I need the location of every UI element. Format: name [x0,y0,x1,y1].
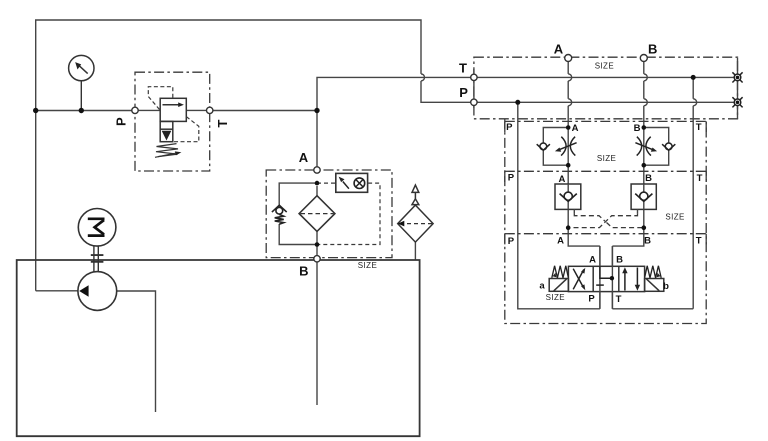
left bypass loop [543,128,668,166]
wire: manifold P line [474,101,738,103]
check ball left [560,192,577,201]
port circle: manifold A [565,55,572,62]
pump P1 [78,272,117,311]
left position crossed arrows [573,269,584,290]
port circle: manifold T [471,74,477,80]
pump flow triangle [79,285,88,297]
stack outer box [505,119,706,324]
svg-text:B: B [299,264,308,279]
port circle: relief T [207,107,213,113]
check valve right [662,143,675,150]
relief flow arrow head [178,102,184,107]
svg-text:B: B [644,236,651,247]
svg-text:B: B [645,173,652,184]
spring left [552,266,569,278]
svg-text:SIZE: SIZE [665,213,684,222]
node: P feed tee [515,100,520,105]
svg-text:P: P [508,236,515,247]
throttle right [635,137,652,156]
svg-text:P: P [506,122,513,133]
svg-text:a: a [539,280,545,291]
svg-text:T: T [697,173,703,184]
relief valve assembly RV1 [135,72,210,171]
svg-text:P: P [508,173,515,184]
svg-text:SIZE: SIZE [546,293,565,302]
wire: pump outlet horizontal [36,290,78,292]
svg-text:T: T [696,122,702,133]
relief spring [156,144,178,157]
pilot stubs [574,209,637,214]
plug P [732,97,742,107]
node: T return tee [691,75,696,80]
crossed pilot dashed lines [568,214,644,228]
wire: pump pressure line to relief valve [36,110,132,112]
wire: valve pass-through B/T [611,246,613,309]
motor M glyph [88,219,105,236]
svg-text:T: T [616,294,622,305]
throttle left [560,137,577,156]
wire: left vertical to pump [35,111,37,291]
port circle: filter A [314,167,320,173]
port circle: manifold B [640,55,647,62]
relief adjust arrow [155,153,175,157]
svg-text:P: P [459,85,468,100]
svg-text:A: A [589,254,596,265]
svg-text:b: b [663,281,669,292]
wire: valve pass-through A/P [599,246,601,309]
svg-text:P: P [588,294,595,305]
valve body [568,266,644,291]
relief pilot dashed lines [148,87,199,142]
svg-text:T: T [459,61,467,76]
node: return junction [314,108,319,113]
bypass loop [279,183,317,256]
node: gauge tee [79,108,84,113]
section boundary 3 [505,233,706,235]
wire: return riser to manifold T [317,77,471,110]
svg-text:T: T [215,119,230,127]
node: filter B tee [315,242,320,247]
section boundary 2 [505,170,706,172]
wire: relief T to return junction [213,110,317,112]
wire: P rail [518,102,600,308]
gauge PG1 [69,55,94,110]
right position parallel arrows [625,268,638,291]
node: pump line tee [33,108,38,113]
svg-text:T: T [696,236,702,247]
check valve left [537,143,550,150]
svg-text:B: B [634,123,641,134]
svg-text:SIZE: SIZE [358,261,377,270]
svg-text:A: A [554,41,564,56]
filter assembly F1 [266,170,392,258]
svg-text:A: A [299,150,309,165]
pilot check valve boxes [555,184,656,209]
motor M1 [78,209,116,247]
wire: return drop to filter A [316,111,318,168]
wire: manifold T line [474,76,738,78]
node: filter A tee [315,181,320,186]
shaft coupling [94,246,98,272]
nodes section1 [566,125,571,130]
boundary ticks [505,121,706,244]
svg-text:A: A [572,123,579,134]
svg-text:SIZE: SIZE [597,154,616,163]
indicator sensing dashed lines [317,183,380,244]
svg-text:A: A [557,236,564,247]
clogging indicator [336,173,368,192]
svg-text:SIZE: SIZE [595,61,614,70]
port circle: manifold P [471,99,477,105]
wire: pump suction to tank [117,291,156,412]
hop: vertical over T line at (421,77.4) [421,74,425,81]
center position: A to T elbow [596,266,612,285]
svg-text:B: B [616,254,623,265]
air breather AB1 [398,185,433,242]
wire: A drop line [568,61,600,246]
check ball right [635,192,652,201]
solenoid b [645,279,664,292]
wire: segments through relief box [138,109,206,111]
relief valve body [160,98,186,141]
bypass check valve [272,205,287,224]
solenoid a [549,279,568,292]
wire: breather drain [414,242,416,260]
port circle: filter B [314,256,320,262]
relief poppet [162,131,172,141]
svg-text:B: B [648,41,657,56]
plug T [732,72,742,82]
pass-through lines over valve [600,246,613,309]
svg-text:P: P [114,117,129,126]
tank [17,260,420,436]
wire: top pressure line from pump to manifold P [36,20,471,111]
port circle: relief P [132,107,138,113]
filter element [299,196,335,232]
wire: B drop line [612,62,643,247]
wire: filter B return into tank [316,262,318,406]
wire: T rail [693,77,697,308]
spring right [645,266,662,278]
manifold solid edge segments [474,58,738,119]
